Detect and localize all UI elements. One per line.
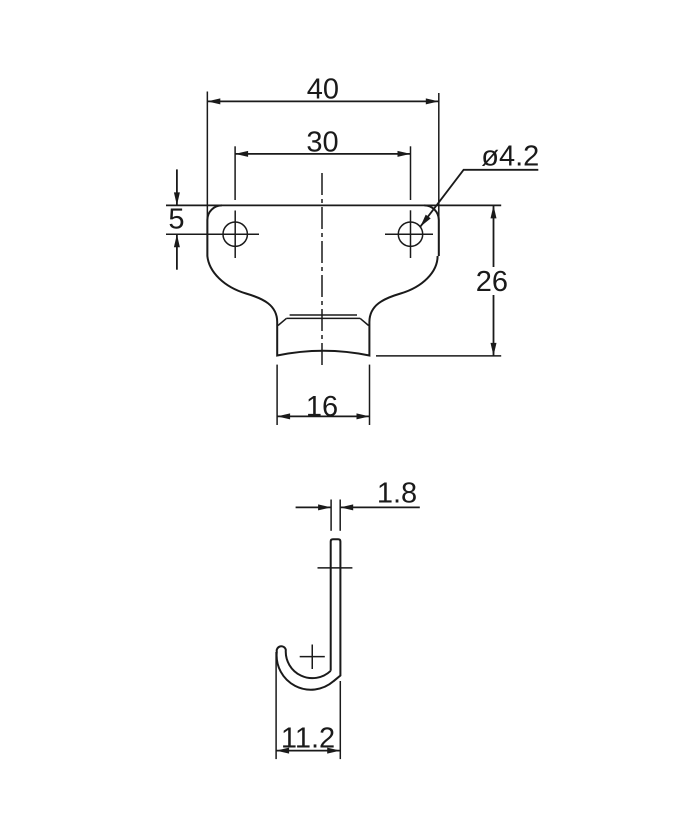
- svg-text:1.8: 1.8: [377, 478, 417, 510]
- svg-text:30: 30: [306, 126, 338, 158]
- svg-text:ø4.2: ø4.2: [481, 141, 539, 173]
- svg-text:26: 26: [476, 266, 508, 298]
- svg-text:5: 5: [168, 204, 184, 236]
- svg-text:40: 40: [307, 74, 339, 106]
- svg-text:16: 16: [306, 391, 338, 423]
- svg-text:11.2: 11.2: [281, 723, 335, 755]
